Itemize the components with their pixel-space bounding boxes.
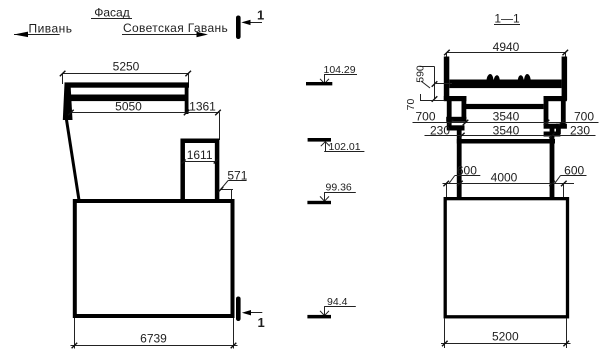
svg-text:6739: 6739 <box>140 332 167 346</box>
svg-text:1611: 1611 <box>187 148 213 162</box>
svg-text:590: 590 <box>415 65 427 83</box>
svg-text:1: 1 <box>257 8 264 23</box>
svg-text:3540: 3540 <box>493 124 520 138</box>
svg-text:700: 700 <box>415 109 435 123</box>
svg-text:1361: 1361 <box>189 100 216 114</box>
svg-text:3540: 3540 <box>493 109 520 123</box>
svg-text:5250: 5250 <box>113 60 140 74</box>
svg-text:99.36: 99.36 <box>326 181 352 193</box>
svg-text:5050: 5050 <box>115 100 142 114</box>
svg-text:4940: 4940 <box>493 40 520 54</box>
svg-text:700: 700 <box>574 109 594 123</box>
svg-text:Пивань: Пивань <box>28 22 72 36</box>
svg-text:102.01: 102.01 <box>329 141 361 153</box>
svg-text:Фасад: Фасад <box>94 5 129 19</box>
svg-text:230: 230 <box>430 124 450 138</box>
svg-text:5200: 5200 <box>492 329 519 343</box>
svg-text:230: 230 <box>570 124 590 138</box>
svg-text:1—1: 1—1 <box>494 12 520 26</box>
svg-text:Советская Гавань: Советская Гавань <box>123 21 228 35</box>
svg-text:4000: 4000 <box>491 171 518 185</box>
svg-text:1: 1 <box>258 315 265 330</box>
